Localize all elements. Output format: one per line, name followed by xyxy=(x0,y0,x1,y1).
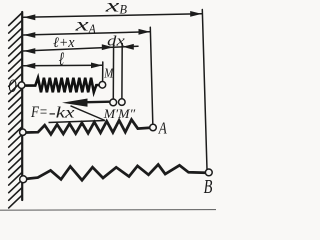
dimension line l+x and dx tail xyxy=(24,46,139,51)
node M'' circle xyxy=(119,99,126,106)
node B circle xyxy=(205,169,212,176)
svg-text:O: O xyxy=(8,77,16,97)
middle spring wall-A xyxy=(26,120,150,135)
svg-text:B: B xyxy=(204,177,213,198)
x_A right arrow xyxy=(139,29,151,35)
node A circle xyxy=(150,124,157,131)
top spring O-M (coil) xyxy=(25,78,99,93)
l+x left arrow xyxy=(24,48,36,54)
force arrow F=-kx xyxy=(62,99,111,107)
scan artifact: page edge line at bottom xyxy=(0,209,216,212)
svg-text:x: x xyxy=(74,15,89,35)
dimension line x_B xyxy=(24,14,202,17)
x_B left arrow xyxy=(24,14,36,20)
wall xyxy=(21,12,23,200)
tick down to A xyxy=(150,27,153,124)
svg-text:dx: dx xyxy=(107,33,125,49)
dimension line l xyxy=(24,64,103,67)
l left arrow xyxy=(24,63,36,69)
bottom spring wall-B xyxy=(27,165,206,181)
l+x right arrow xyxy=(102,44,113,50)
wall pin middle xyxy=(20,129,26,135)
node M circle xyxy=(99,82,106,89)
dimension line x_A xyxy=(24,32,150,35)
arrowheads xyxy=(24,11,202,69)
leader underline under F=-kx xyxy=(49,121,106,123)
tick at M'' xyxy=(121,44,123,99)
wall hatching xyxy=(9,13,22,208)
leader diagonal to M' xyxy=(71,106,106,121)
node circles xyxy=(18,82,212,183)
tick down to B xyxy=(202,10,207,170)
svg-text:M′M″: M′M″ xyxy=(103,106,136,121)
x_B right arrow xyxy=(190,11,202,17)
svg-text:F=: F= xyxy=(30,104,48,121)
svg-text:M: M xyxy=(104,66,115,81)
svg-text:ℓ: ℓ xyxy=(59,49,65,70)
svg-text:-kx: -kx xyxy=(49,105,75,122)
svg-text:x: x xyxy=(104,0,119,15)
wall pin bottom xyxy=(20,176,27,183)
node M' circle xyxy=(110,99,117,106)
x_A left arrow xyxy=(24,32,36,38)
svg-text:A: A xyxy=(88,22,96,36)
tick at M xyxy=(102,62,104,81)
l right arrow xyxy=(91,63,102,69)
dx right-side arrow pointing left xyxy=(123,44,134,50)
node O circle xyxy=(18,82,25,89)
tick at M' xyxy=(112,44,114,99)
svg-text:A: A xyxy=(158,118,167,137)
svg-text:B: B xyxy=(120,3,128,17)
